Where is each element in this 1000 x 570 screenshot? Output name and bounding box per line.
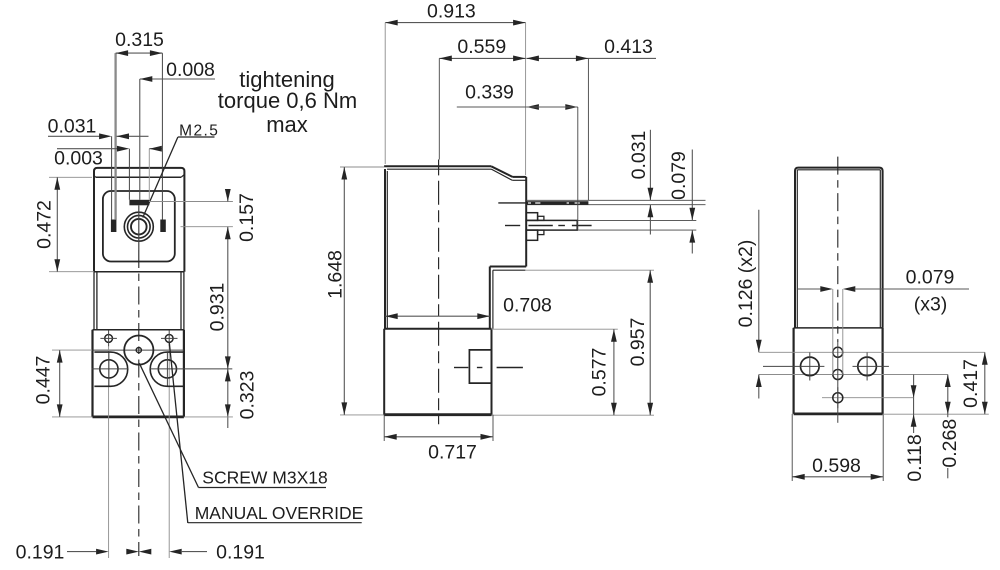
svg-text:1.648: 1.648 — [325, 250, 347, 299]
svg-text:0.323: 0.323 — [237, 371, 259, 420]
svg-text:0.157: 0.157 — [236, 193, 258, 242]
svg-text:0.079: 0.079 — [668, 151, 690, 200]
svg-text:0.003: 0.003 — [54, 148, 103, 170]
svg-text:0.417: 0.417 — [960, 359, 982, 408]
svg-text:0.268: 0.268 — [939, 419, 961, 468]
svg-text:0.191: 0.191 — [16, 542, 65, 564]
svg-text:0.559: 0.559 — [457, 36, 506, 58]
svg-text:0.031: 0.031 — [48, 115, 97, 137]
svg-text:0.447: 0.447 — [33, 356, 55, 405]
svg-text:0.472: 0.472 — [34, 200, 56, 249]
svg-text:0.118: 0.118 — [904, 434, 926, 481]
svg-text:0.598: 0.598 — [812, 455, 861, 477]
svg-text:0.079: 0.079 — [906, 267, 955, 289]
svg-text:0.126 (x2): 0.126 (x2) — [735, 240, 757, 328]
svg-text:0.339: 0.339 — [465, 82, 514, 104]
svg-text:(x3): (x3) — [914, 293, 948, 315]
svg-text:0.413: 0.413 — [604, 36, 653, 58]
svg-text:0.913: 0.913 — [427, 0, 476, 22]
svg-text:0.577: 0.577 — [588, 348, 610, 397]
svg-text:0.031: 0.031 — [628, 131, 650, 180]
svg-text:SCREW M3X18: SCREW M3X18 — [202, 468, 327, 488]
svg-text:0.191: 0.191 — [216, 542, 265, 564]
svg-text:0.315: 0.315 — [115, 29, 164, 51]
svg-text:0.957: 0.957 — [627, 318, 649, 367]
svg-text:0.931: 0.931 — [207, 283, 229, 332]
svg-text:0.708: 0.708 — [503, 294, 552, 316]
svg-text:MANUAL OVERRIDE: MANUAL OVERRIDE — [195, 503, 364, 523]
svg-text:0.717: 0.717 — [428, 442, 477, 464]
svg-text:0.008: 0.008 — [166, 59, 215, 81]
svg-text:torque 0,6 Nm: torque 0,6 Nm — [218, 88, 357, 113]
svg-text:max: max — [266, 112, 308, 137]
